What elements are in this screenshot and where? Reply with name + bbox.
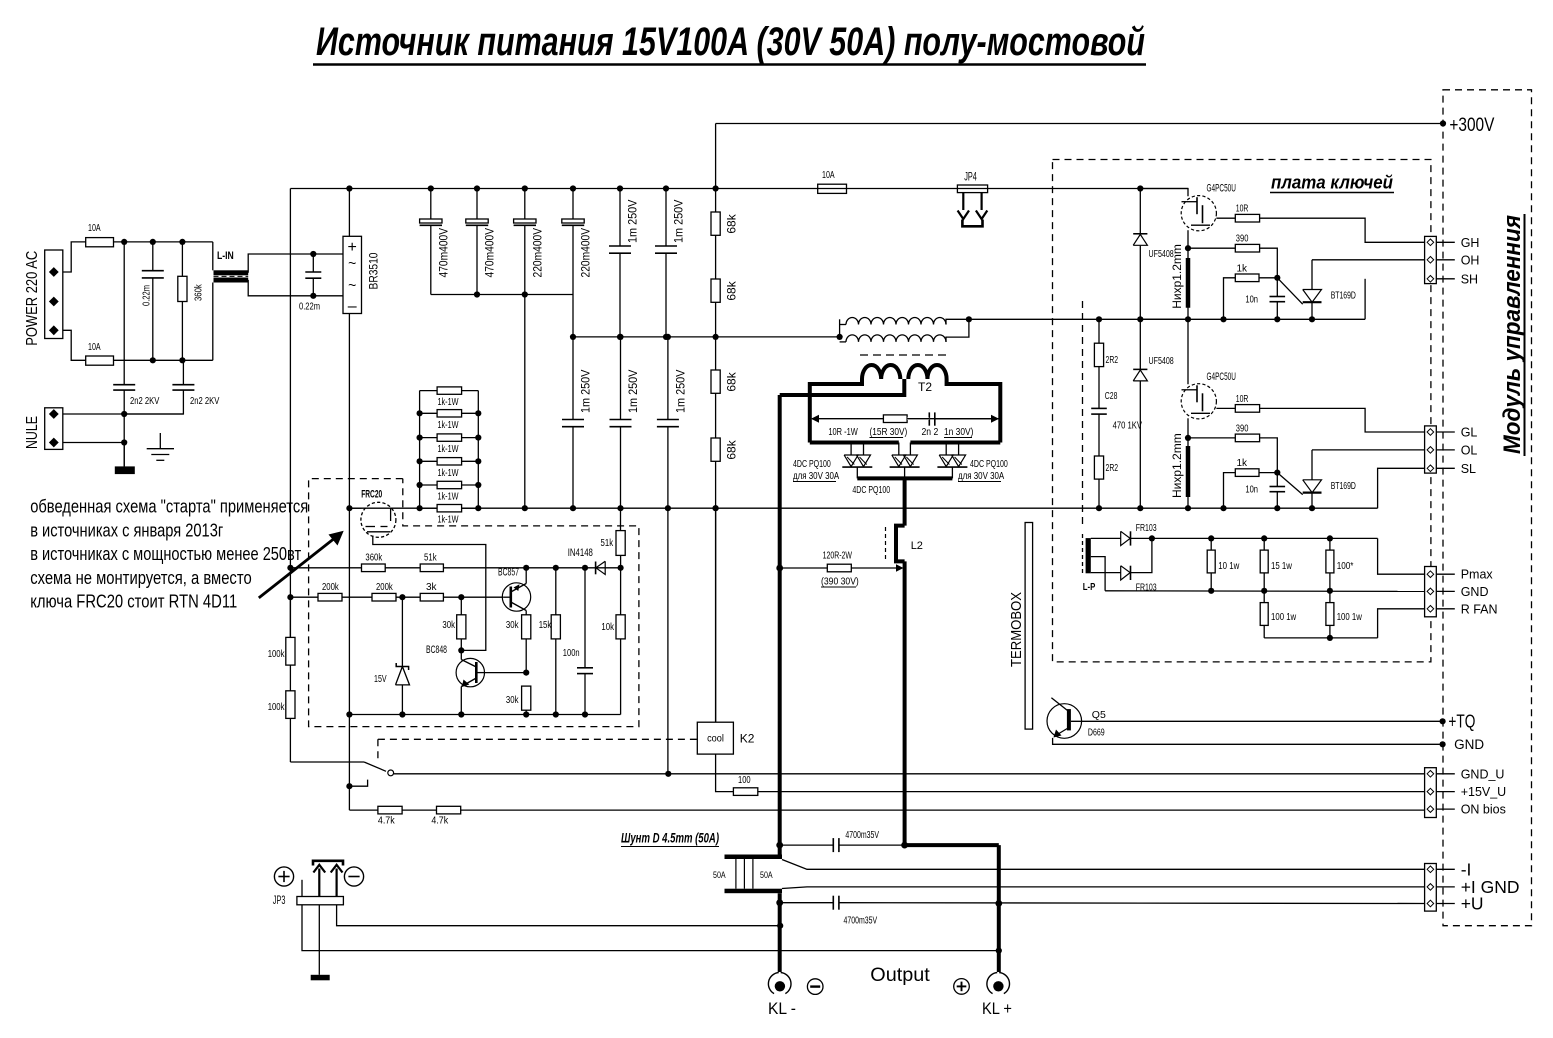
capacitor 10n [1276,278,1278,297]
wire left vertical A down [289,189,291,763]
capacitor 0.22m X-cap [152,242,154,271]
svg-text:4DC PQ100: 4DC PQ100 [970,459,1008,470]
wire rectifier output bus thick [857,476,952,480]
wire FRC20 gate to BC848 [373,536,486,651]
svg-text:UF5408: UF5408 [1149,249,1175,260]
capacitor 1m 250V lower at x=620.5 [620,337,622,420]
svg-text:GND_U: GND_U [1461,767,1505,781]
svg-text:~: ~ [348,255,356,271]
wire capacitor bank bottom rail [431,294,573,296]
svg-text:Pmax: Pmax [1461,568,1494,582]
wire BR3510 plus to rail [348,189,350,237]
resistor 200k b [372,593,396,601]
resistor 1k [1224,473,1236,509]
svg-text:68k: 68k [725,371,739,391]
svg-text:10n: 10n [1245,295,1258,306]
svg-text:3k: 3k [426,582,438,593]
inductor input choke lower winding [846,335,946,342]
svg-text:10R -1W: 10R -1W [828,427,858,438]
wire bank bottom to lower bus [524,295,526,509]
svg-text:470m400V: 470m400V [483,228,497,278]
capacitor 470m400V at x=430.8 [430,189,432,220]
svg-text:100k: 100k [268,702,286,713]
wire mid rail Y2 [573,336,840,338]
resistor 360k bleeder [181,242,183,276]
resistor 1k-1W row6 [437,505,462,512]
svg-text:G4PC50U: G4PC50U [1207,183,1236,195]
connector Pmax GND RFAN [1425,567,1437,617]
wire JP3 to sense rail B [302,905,999,951]
svg-text:обведенная схема "старта" прим: обведенная схема "старта" применяется [30,496,308,517]
diode UF5408 [1139,189,1141,320]
capacitor 470m400V at x=477 [476,189,478,220]
wire lower bus Y3 [349,507,1377,509]
svg-text:FR103: FR103 [1136,582,1157,594]
svg-text:2R2: 2R2 [1106,354,1119,366]
svg-text:390: 390 [1236,234,1249,245]
wire ON bios rail [349,809,1425,811]
wire L-P rail2 GND [1105,590,1425,593]
svg-text:1k: 1k [1237,458,1249,469]
wires L-IN to bridge [248,254,343,273]
Q5 emitter [1054,728,1069,737]
resistor 1k-1W row4 [437,458,462,465]
svg-text:470m400V: 470m400V [436,228,450,278]
diode pair 3 [945,443,947,456]
svg-text:10n: 10n [1245,485,1258,496]
dashed box switch area [378,738,697,740]
svg-text:1k-1W: 1k-1W [438,420,459,431]
svg-text:390: 390 [1236,423,1249,434]
wire K2 coil top [715,508,717,722]
switch NO contact [346,783,352,789]
nichrome wire Нихр1.2mm [1186,258,1191,308]
node on L wire [121,239,127,245]
wire L-P rail1 [1152,537,1378,539]
T2 secondary bottom bar right [910,441,1000,445]
svg-text:cool: cool [707,733,724,745]
svg-text:4.7k: 4.7k [378,816,396,827]
svg-text:1k-1W: 1k-1W [438,444,459,455]
svg-text:200k: 200k [376,582,394,593]
wire OH to pin [1312,449,1425,451]
svg-text:360k: 360k [365,553,383,564]
svg-text:SH: SH [1461,272,1478,286]
terminal KL+ [999,973,1009,994]
svg-text:–: – [348,298,357,315]
svg-text:~: ~ [348,277,356,293]
svg-text:1n 30V): 1n 30V) [944,427,973,438]
thyristor gate wire [1277,473,1302,495]
svg-text:в источниках с января 2013г: в источниках с января 2013г [30,519,223,540]
svg-text:плата ключей: плата ключей [1271,173,1393,193]
svg-text:1k-1W: 1k-1W [438,515,459,526]
wire main DC+ rail Y1 [290,188,1188,190]
svg-text:+U: +U [1461,894,1484,914]
svg-text:1m 250V: 1m 250V [626,370,640,413]
wire SH vertical [1364,279,1366,320]
svg-text:KL -: KL - [768,999,796,1018]
wire KL- rail thick lower [778,893,782,960]
wire IGBT collector [1140,189,1188,197]
svg-text:ON bios: ON bios [1461,803,1506,817]
svg-text:UF5408: UF5408 [1149,356,1175,367]
svg-text:1k-1W: 1k-1W [438,468,459,479]
inductor L2 [896,526,905,562]
svg-text:FRC20: FRC20 [361,489,382,501]
wire T2 return rail thick [778,395,782,857]
svg-text:10A: 10A [88,342,101,353]
svg-text:50A: 50A [713,870,726,880]
resistor 30k under BC857 [522,615,531,639]
svg-text:120R-2W: 120R-2W [823,551,853,562]
svg-text:1m 250V: 1m 250V [579,370,593,413]
wire IGBT collector [1140,319,1188,384]
svg-text:50A: 50A [760,870,773,880]
nichrome wire Нихр1.2mm [1186,446,1191,497]
capacitor 1m 250V lower at x=573 [572,337,574,420]
resistor 390 [1188,247,1235,249]
relay K2 [697,722,733,754]
svg-text:0.22m: 0.22m [142,285,153,306]
wire NULE pin1 [63,413,184,415]
svg-text:1m 250V: 1m 250V [672,200,686,243]
resistor 68k [711,370,720,393]
svg-text:G4PC50U: G4PC50U [1207,371,1236,383]
wire 10R to gate pin [1260,408,1425,432]
svg-text:Output: Output [870,965,930,986]
resistor ladder 1k-1W x6 [419,391,421,509]
terminal KL- [781,973,791,994]
dashed inner line [1082,301,1084,528]
svg-text:68k: 68k [725,213,739,233]
resistor 100* [1329,538,1331,550]
wire shunt sense +I GND [782,887,1425,889]
svg-text:10k: 10k [601,622,614,633]
capacitor 4700m35V lower / +U wire [780,902,834,904]
capacitor 0.22m at bridge [310,251,316,257]
svg-text:+TQ: +TQ [1448,712,1475,732]
capacitor 10n [1276,473,1278,487]
wire choke to keys board rail [969,318,1365,320]
svg-text:K2: K2 [740,732,755,746]
earth ground symbol [159,433,161,449]
transistor Q5 D669 [1047,704,1082,739]
svg-text:в источниках с мощностью менее: в источниках с мощностью менее 250вт [30,543,301,564]
capacitor 220m400V at x=524.8 [524,189,526,220]
resistor 120R-2W [780,567,897,569]
wire +TQ [1071,720,1443,722]
capacitor 1m 250V lower at x=667.9 [667,337,669,420]
JP3 plus mark [274,867,293,886]
resistor 68k [711,279,720,302]
capacitor 2n2 2KV left [123,242,125,385]
svg-text:10A: 10A [822,170,835,181]
resistor 10R-1W snubber [883,415,907,423]
svg-text:GND: GND [1461,585,1489,599]
T2 secondary bottom bar left [810,441,899,445]
resistor 68k [711,212,720,235]
capacitor 1m 250V upper at x=666 [665,189,667,247]
resistor 15k [555,568,557,615]
svg-text:схема не монтируется, а вместо: схема не монтируется, а вместо [30,567,252,588]
wire +300V rail [716,123,1443,125]
svg-text:GL: GL [1461,426,1478,440]
nodes on N wire [150,357,156,363]
diode UF5408 [1139,319,1141,508]
svg-text:OH: OH [1461,253,1480,267]
svg-text:51k: 51k [601,538,614,549]
svg-text:220m400V: 220m400V [579,228,593,278]
snubber 2R2 C28 2R2 chain [1098,319,1100,343]
minus mark output [807,979,823,995]
resistor 1k-1W row1 [437,387,462,394]
resistor 10 1w [1210,538,1212,550]
svg-text:L-P: L-P [1083,582,1096,593]
svg-text:1k-1W: 1k-1W [438,397,459,408]
transformer L-P [1086,538,1091,573]
svg-text:(390 30V): (390 30V) [821,577,859,588]
svg-text:KL +: KL + [982,999,1012,1018]
wire start rail y568 [290,567,620,569]
connector NULE [45,408,63,450]
wire start circuit bottom rail [349,714,620,716]
shunt 50A [725,855,783,860]
svg-text:+: + [348,239,357,256]
svg-text:IN4148: IN4148 [568,547,593,559]
dashed box start circuit [309,479,639,727]
resistor 100 1w b [1329,591,1331,603]
wire shunt sense -I [782,860,1425,870]
svg-text:+15V_U: +15V_U [1461,785,1507,799]
wire 390 to node [1260,248,1278,278]
wire GND from Q5 [1053,738,1443,744]
dashed core line [860,354,947,356]
svg-text:30k: 30k [506,695,519,706]
svg-text:30k: 30k [442,620,455,631]
resistor 200k a [318,593,342,601]
svg-text:360k: 360k [194,283,205,301]
svg-text:100: 100 [738,775,751,786]
svg-text:Шунт D 4.5mm (50A): Шунт D 4.5mm (50A) [621,830,719,846]
svg-text:2R2: 2R2 [1106,462,1119,474]
JP3 arrows [318,869,320,897]
wire IGBT emitter [1187,230,1189,248]
wire JP3 to sense rail A [337,905,781,926]
resistor 1k-1W row5 [437,481,462,488]
svg-text:15k: 15k [539,620,552,631]
dashed box control module [1443,90,1532,926]
resistor 4.7k b [437,806,461,814]
capacitor 100n [584,568,586,668]
wire BR3510 minus down (vertical B) [348,314,350,811]
resistor 1k-1W row2 [437,410,462,417]
resistor 1k [1224,278,1236,320]
svg-text:BT169D: BT169D [1331,481,1356,492]
wire L2 down thick [903,561,907,845]
svg-text:15 1w: 15 1w [1271,560,1292,572]
wire NULE pin2 [63,442,124,444]
capacitor 2n2 snubber [928,412,930,425]
resistor 15 1w [1263,538,1265,550]
svg-text:1m 250V: 1m 250V [673,370,687,413]
svg-text:C28: C28 [1105,390,1118,402]
svg-text:2n 2: 2n 2 [922,427,939,438]
svg-text:BT169D: BT169D [1331,291,1356,302]
resistor 68k [711,438,720,461]
wire 10R to gate pin [1260,218,1425,242]
resistor 4.7k a [378,806,402,814]
svg-text:JP3: JP3 [273,895,286,907]
svg-text:30k: 30k [506,620,519,631]
svg-text:POWER 220 AC: POWER 220 AC [24,251,41,346]
wire 68k chain vertical [715,124,717,722]
svg-text:Нихр1.2mm: Нихр1.2mm [1170,433,1184,498]
svg-text:(15R 30V): (15R 30V) [870,427,908,438]
wire L-P tap to rail2 [1091,557,1105,591]
wire Y3 to relay rail [667,508,669,774]
wire OH to pin [1312,259,1425,261]
T2 center tap lead [780,379,905,395]
wire rect bus to L2 [903,478,907,525]
svg-text:100*: 100* [1337,560,1354,572]
resistor 390 [1188,437,1235,439]
diode UF5408 high symbol [1133,233,1147,235]
svg-text:2n2 2KV: 2n2 2KV [190,396,220,407]
svg-text:BC848: BC848 [426,644,447,656]
svg-text:4700m35V: 4700m35V [844,916,878,927]
resistor 100 [733,788,757,796]
arrow to start box [259,536,338,598]
svg-text:Q5: Q5 [1092,709,1106,721]
svg-text:51k: 51k [424,553,437,564]
wire relay rail y774 to GND_U [394,773,1426,775]
diode pair 2 (split stubs) [898,443,900,456]
svg-text:D669: D669 [1088,727,1105,739]
JP3 ground bar [318,905,320,975]
svg-text:для 30V 30A: для 30V 30A [958,471,1004,482]
svg-text:100k: 100k [268,649,286,660]
connector high side GH OH SH [1425,236,1437,283]
diode pair 1 [850,443,852,456]
wire start rail y597 [290,596,503,598]
wire +15V_U rail [758,791,1426,793]
resistor 51k vertical [620,508,622,530]
wire R FAN tie [1264,637,1377,639]
fuse F2 10A bottom [63,330,86,360]
snubber line inside T2 [812,418,998,420]
svg-text:T2: T2 [918,380,932,394]
svg-text:10A: 10A [88,223,101,234]
svg-text:TERMOBOX: TERMOBOX [1008,592,1025,667]
resistor 1k-1W row3 [437,434,462,441]
label TERMOBOX [1025,523,1033,730]
svg-text:10R: 10R [1236,204,1249,215]
inductor input choke upper winding [839,319,841,337]
svg-text:100 1w: 100 1w [1271,611,1297,623]
svg-text:Модуль управленния: Модуль управленния [1499,215,1526,454]
svg-text:1k: 1k [1237,263,1249,274]
connector -I +IGND +U [1425,864,1437,912]
svg-text:68k: 68k [725,439,739,459]
svg-text:15V: 15V [374,674,387,685]
wire 390 to node [1260,438,1278,473]
JP3 outer pin stub [301,880,303,897]
svg-text:BR3510: BR3510 [367,252,381,289]
svg-text:10 1w: 10 1w [1218,560,1239,572]
T2 primary left lead [810,379,862,443]
svg-text:470 1KV: 470 1KV [1113,420,1142,432]
svg-text:200k: 200k [322,582,340,593]
switch S1 lever [290,761,364,763]
fuse 10A in DC rail [818,184,847,193]
svg-text:4700m35V: 4700m35V [845,830,879,841]
svg-text:SL: SL [1461,462,1476,476]
svg-text:GND: GND [1454,737,1484,752]
svg-text:GH: GH [1461,236,1480,250]
svg-text:1m 250V: 1m 250V [626,200,640,243]
svg-text:0.22m: 0.22m [299,302,320,313]
svg-text:1k-1W: 1k-1W [438,492,459,503]
svg-text:BC857: BC857 [498,567,519,579]
svg-text:4DC PQ100: 4DC PQ100 [852,485,890,496]
svg-text:4DC PQ100: 4DC PQ100 [793,459,831,470]
bridge rectifier BR3510 [343,236,362,313]
svg-text:220m400V: 220m400V [530,228,544,278]
zener diode 15V [401,597,403,666]
wire IGBT emitter [1187,418,1189,438]
wire SL vertical [1378,468,1425,508]
svg-text:10R: 10R [1236,394,1249,405]
thyristor gate wire [1277,278,1302,304]
svg-text:Источник питания 15V100A (30V: Источник питания 15V100A (30V 50A) полу-… [316,20,1145,64]
connector low side GL OL SL [1425,426,1437,473]
svg-text:4.7k: 4.7k [431,816,449,827]
T2 primary right lead [947,379,1001,443]
resistor 10k [620,568,622,615]
connector POWER 220 AC [45,250,63,339]
svg-text:ключа FRC20 стоит RTN 4D11: ключа FRC20 стоит RTN 4D11 [30,591,237,612]
capacitor 1m 250V upper at x=620 [619,189,621,247]
dashed box keys board [1053,160,1431,662]
resistor 100k lower [286,691,295,719]
wire Pmax [1378,538,1425,574]
resistor 100 1w a [1263,591,1265,603]
capacitor 2n2 2KV right [182,360,184,384]
wire thick to KL+ [905,843,999,847]
svg-text:L-IN: L-IN [217,250,234,262]
resistor 10R [1216,407,1235,409]
svg-text:100n: 100n [563,648,580,659]
svg-text:для 30V 30A: для 30V 30A [793,471,839,482]
svg-text:100 1w: 100 1w [1337,611,1363,623]
svg-text:2n2 2KV: 2n2 2KV [130,396,160,407]
resistor 10R [1216,217,1235,219]
svg-text:JP4: JP4 [964,172,977,184]
JP3 minus mark [344,867,363,886]
svg-text:NULE: NULE [24,416,41,449]
svg-text:L2: L2 [911,540,923,552]
fuse F1 10A top [63,242,86,272]
wire K2 bottom to 15V_U rail [716,754,734,792]
svg-text:R FAN: R FAN [1461,602,1498,616]
resistor 100k upper [289,597,291,637]
connector GND_U 15V_U ONbios [1425,768,1437,818]
svg-text:OL: OL [1461,443,1478,457]
chassis ground bar [123,443,125,467]
svg-text:68k: 68k [725,280,739,300]
resistor 3k [420,593,443,601]
